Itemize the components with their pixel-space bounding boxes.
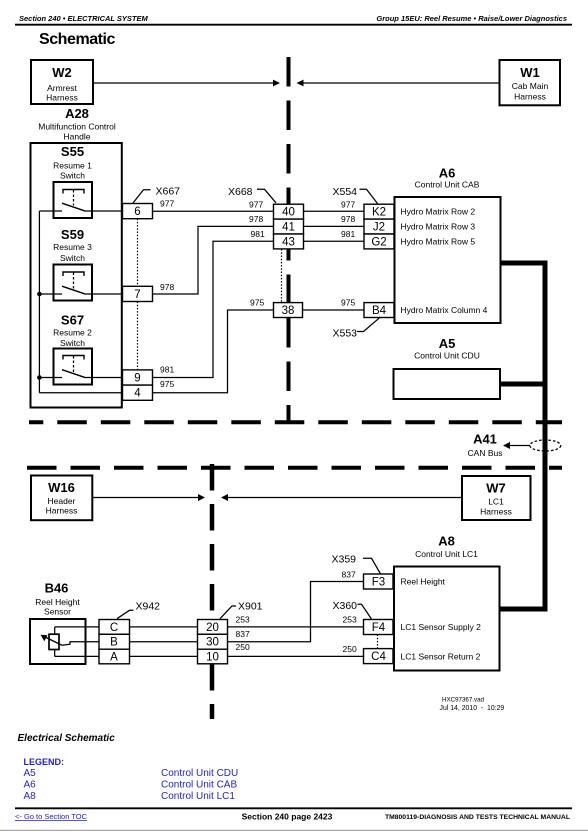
svg-text:Hydro Matrix Column 4: Hydro Matrix Column 4	[401, 305, 488, 315]
svg-text:A6: A6	[24, 780, 37, 791]
svg-text:Control Unit CDU: Control Unit CDU	[414, 351, 480, 361]
svg-text:Switch: Switch	[60, 338, 85, 348]
svg-text:43: 43	[282, 236, 295, 248]
svg-text:A28: A28	[65, 106, 89, 121]
svg-text:Armrest: Armrest	[47, 83, 77, 93]
svg-text:Section 240 • ELECTRICAL SYSTE: Section 240 • ELECTRICAL SYSTEM	[19, 14, 149, 23]
svg-text:Header: Header	[48, 496, 76, 506]
svg-text:Hydro Matrix Row 3: Hydro Matrix Row 3	[401, 222, 476, 232]
svg-text:CAN Bus: CAN Bus	[468, 448, 503, 458]
svg-text:Resume 3: Resume 3	[53, 242, 92, 252]
svg-text:Sensor: Sensor	[44, 607, 71, 617]
svg-text:X359: X359	[332, 554, 357, 566]
svg-text:6: 6	[134, 206, 140, 218]
svg-text:981: 981	[341, 229, 355, 239]
svg-text:978: 978	[341, 214, 355, 224]
svg-text:Switch: Switch	[60, 253, 85, 263]
svg-text:W2: W2	[52, 65, 72, 80]
svg-text:J2: J2	[373, 222, 385, 234]
svg-text:38: 38	[282, 305, 295, 317]
svg-text:W1: W1	[520, 65, 540, 80]
svg-text:4: 4	[134, 388, 141, 400]
svg-text:A41: A41	[473, 432, 497, 447]
svg-text:C: C	[110, 622, 118, 634]
svg-text:975: 975	[160, 379, 174, 389]
svg-text:Section 240 page 2423: Section 240 page 2423	[242, 812, 333, 822]
svg-text:K2: K2	[372, 207, 386, 219]
svg-text:Hydro Matrix Row 2: Hydro Matrix Row 2	[401, 207, 476, 217]
svg-text:B: B	[110, 637, 118, 649]
svg-text:S55: S55	[61, 144, 84, 159]
svg-text:250: 250	[343, 644, 357, 654]
svg-text:W16: W16	[48, 480, 75, 495]
svg-text:30: 30	[206, 637, 219, 649]
svg-text:Resume 1: Resume 1	[53, 161, 92, 171]
svg-text:837: 837	[236, 629, 250, 639]
svg-text:981: 981	[251, 229, 265, 239]
svg-text:HXC97367.vad: HXC97367.vad	[442, 697, 485, 704]
svg-text:41: 41	[282, 222, 295, 234]
svg-text:9: 9	[134, 373, 140, 385]
svg-text:X942: X942	[136, 600, 161, 612]
svg-text:A8: A8	[24, 791, 37, 802]
svg-text:Schematic: Schematic	[39, 31, 116, 48]
svg-text:Harness: Harness	[46, 506, 78, 516]
svg-text:X360: X360	[333, 600, 358, 612]
svg-text:W7: W7	[486, 481, 506, 496]
svg-text:Switch: Switch	[60, 171, 85, 181]
svg-text:X553: X553	[333, 328, 358, 340]
svg-text:Jul 14, 2010 - 10:29: Jul 14, 2010 - 10:29	[440, 705, 505, 712]
svg-text:X668: X668	[228, 186, 253, 198]
svg-text:B4: B4	[372, 305, 387, 317]
svg-text:LC1 Sensor Return 2: LC1 Sensor Return 2	[401, 651, 481, 661]
svg-text:LC1 Sensor Supply 2: LC1 Sensor Supply 2	[401, 622, 482, 632]
svg-text:Control Unit CAB: Control Unit CAB	[415, 180, 480, 190]
svg-text:977: 977	[249, 199, 263, 209]
svg-text:F3: F3	[372, 576, 385, 588]
svg-text:253: 253	[343, 615, 357, 625]
svg-text:B46: B46	[45, 581, 69, 596]
svg-text:Control Unit CAB: Control Unit CAB	[161, 780, 237, 791]
svg-text:978: 978	[160, 282, 174, 292]
svg-text:C4: C4	[371, 651, 386, 663]
svg-text:Reel Height: Reel Height	[401, 577, 446, 587]
svg-text:981: 981	[160, 365, 174, 375]
svg-text:<- Go to Section TOC: <- Go to Section TOC	[15, 812, 88, 821]
svg-text:977: 977	[160, 199, 174, 209]
svg-text:X901: X901	[238, 600, 263, 612]
svg-text:Control Unit LC1: Control Unit LC1	[415, 549, 478, 559]
svg-text:TM800119-DIAGNOSIS AND TESTS T: TM800119-DIAGNOSIS AND TESTS TECHNICAL M…	[385, 814, 570, 821]
svg-text:837: 837	[342, 569, 356, 579]
svg-text:250: 250	[236, 642, 250, 652]
svg-text:X667: X667	[156, 186, 181, 198]
svg-text:A5: A5	[24, 768, 37, 779]
svg-text:Group 15EU: Reel Resume • Rais: Group 15EU: Reel Resume • Raise/Lower Di…	[376, 14, 567, 23]
svg-text:X554: X554	[333, 186, 358, 198]
svg-text:LEGEND:: LEGEND:	[24, 757, 65, 767]
svg-text:Hydro Matrix Row 5: Hydro Matrix Row 5	[401, 236, 476, 246]
svg-text:Multifunction Control: Multifunction Control	[38, 122, 116, 132]
svg-text:978: 978	[249, 214, 263, 224]
svg-text:253: 253	[236, 614, 250, 624]
svg-text:Reel Height: Reel Height	[35, 597, 80, 607]
svg-text:S67: S67	[61, 313, 84, 328]
svg-text:Resume 2: Resume 2	[53, 328, 92, 338]
svg-text:F4: F4	[372, 622, 386, 634]
svg-text:LC1: LC1	[488, 497, 504, 507]
svg-text:10: 10	[206, 652, 219, 664]
svg-text:Cab Main: Cab Main	[512, 81, 549, 91]
svg-text:Harness: Harness	[46, 93, 78, 103]
svg-text:975: 975	[250, 298, 264, 308]
svg-text:S59: S59	[61, 227, 84, 242]
svg-text:A8: A8	[438, 534, 455, 549]
svg-text:Harness: Harness	[480, 507, 512, 517]
svg-text:7: 7	[134, 289, 140, 301]
svg-text:A6: A6	[439, 166, 456, 181]
svg-text:Handle: Handle	[64, 132, 91, 142]
svg-text:Control Unit CDU: Control Unit CDU	[161, 768, 238, 779]
svg-text:Harness: Harness	[514, 92, 546, 102]
svg-text:A: A	[110, 652, 118, 664]
svg-text:A5: A5	[439, 336, 456, 351]
svg-text:977: 977	[341, 199, 355, 209]
svg-text:Control Unit LC1: Control Unit LC1	[161, 791, 235, 802]
svg-text:20: 20	[206, 622, 219, 634]
svg-text:G2: G2	[371, 236, 386, 248]
svg-text:40: 40	[282, 207, 295, 219]
svg-text:Electrical Schematic: Electrical Schematic	[18, 733, 116, 744]
svg-text:975: 975	[341, 298, 355, 308]
